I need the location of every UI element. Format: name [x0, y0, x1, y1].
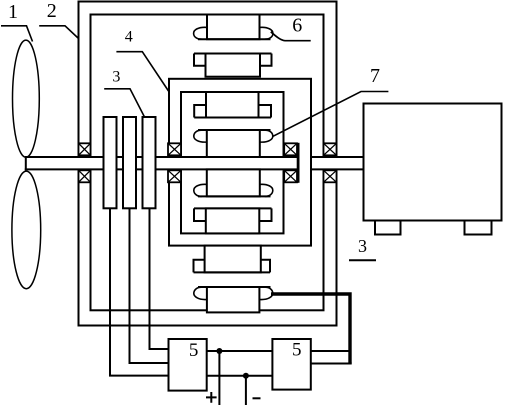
terminal wire minus — [245, 376, 247, 405]
armature box 4 — [169, 79, 311, 246]
rotor coil C5 (ears) — [194, 169, 273, 196]
bearing armature left upper — [168, 143, 181, 155]
thick stator wire — [271, 294, 350, 364]
label 7 — [273, 65, 388, 136]
svg-text:7: 7 — [370, 65, 380, 87]
bearing inner rotor right upper — [284, 143, 297, 155]
machine foot left — [375, 221, 401, 235]
output shaft — [312, 156, 364, 170]
bearing inner rotor right lower — [284, 170, 297, 182]
propeller blade upper — [13, 40, 40, 157]
minus sign — [253, 397, 261, 399]
svg-text:2: 2 — [47, 0, 57, 22]
dc bus wire bottom — [207, 375, 273, 377]
bearing left casing upper — [79, 143, 91, 155]
bearing armature left lower — [168, 170, 181, 182]
rotor coil C4 (ears, label 7) — [194, 130, 273, 157]
svg-text:3: 3 — [112, 68, 120, 85]
svg-text:6: 6 — [292, 15, 302, 37]
rotor coil C6 (tabs) — [194, 208, 272, 233]
inner casing wall — [91, 15, 324, 311]
svg-text:5: 5 — [189, 340, 199, 361]
label 1 (propeller) — [1, 1, 33, 42]
brush bar 3c — [143, 117, 156, 208]
main shaft end cap — [297, 143, 300, 183]
wire from brush bar 3b — [130, 208, 169, 363]
wire from brush bar 3a — [110, 208, 169, 375]
bearing left casing lower — [79, 170, 91, 182]
dc bus wire top — [207, 350, 273, 352]
bearing right casing upper — [324, 143, 337, 155]
svg-text:1: 1 — [8, 1, 18, 23]
label 3 (brushes) — [104, 68, 144, 117]
brush bar 3b — [123, 117, 136, 208]
junction dot plus — [216, 348, 222, 354]
stator coil C8 bottom (ears) — [194, 287, 273, 312]
propeller blade lower — [12, 171, 41, 289]
label 4 (armature box) — [116, 28, 168, 91]
armature coil C2 (tabs) — [194, 54, 272, 77]
svg-text:5: 5 — [292, 340, 302, 361]
terminal wire plus — [218, 351, 220, 405]
inner rotor box — [181, 92, 284, 233]
svg-text:3: 3 — [358, 236, 367, 256]
label 3 underlined (machine) — [349, 236, 376, 260]
brush bar 3a — [104, 117, 117, 208]
output wire lower — [311, 363, 352, 365]
converter box 5 right — [272, 339, 310, 390]
machine box (load) — [364, 104, 502, 221]
rotor coil C3 (tabs) — [194, 92, 271, 118]
converter box 5 left — [169, 339, 207, 391]
wire from brush bar 3c — [150, 208, 169, 349]
outer casing wall — [79, 2, 337, 326]
plus sign — [206, 392, 217, 403]
label 2 (casing) — [39, 0, 78, 38]
output wire upper — [311, 350, 350, 352]
bearing right casing lower — [324, 170, 337, 182]
stator coil C1 top (ears) — [194, 15, 273, 40]
svg-text:4: 4 — [125, 28, 133, 45]
armature coil C7 (tabs) — [194, 246, 271, 273]
machine foot right — [465, 221, 492, 235]
label 6 — [271, 15, 311, 41]
main shaft — [25, 156, 299, 170]
junction dot minus — [243, 373, 249, 379]
